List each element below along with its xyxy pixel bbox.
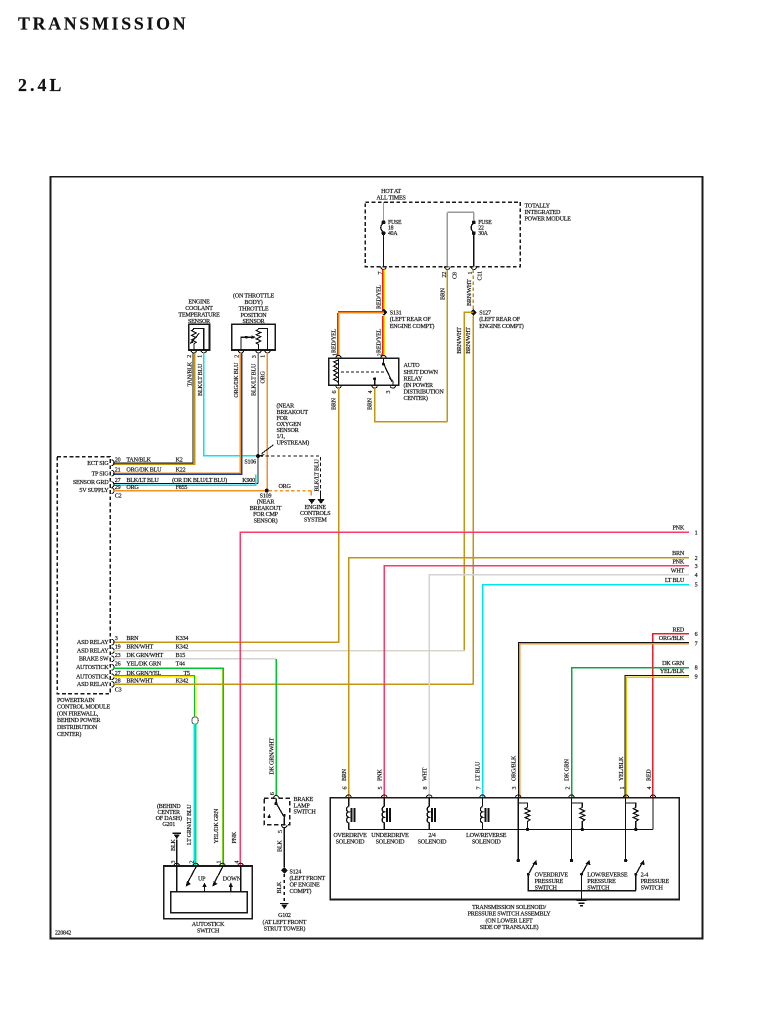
- pin 4 internal wire: [652, 798, 654, 830]
- svg-text:WHT: WHT: [671, 568, 685, 574]
- svg-text:TRANSMISSION SOLENOID/: TRANSMISSION SOLENOID/: [472, 905, 546, 911]
- svg-text:COMPT): COMPT): [290, 888, 312, 895]
- svg-text:FOR CMP: FOR CMP: [253, 512, 279, 518]
- svg-text:3: 3: [512, 787, 518, 790]
- svg-text:1: 1: [198, 355, 204, 358]
- svg-text:S124: S124: [290, 869, 302, 875]
- wire BLK/LT BLU dashed from S106 to engine controls: [260, 456, 321, 498]
- svg-text:COOLANT: COOLANT: [185, 306, 213, 312]
- solenoid return bus: [349, 828, 653, 830]
- wire RED/YEL S131 down to relay pin 2: [382, 316, 384, 356]
- svg-text:YEL/BLK: YEL/BLK: [660, 669, 685, 675]
- svg-text:6: 6: [270, 792, 276, 795]
- svg-text:G102: G102: [278, 913, 291, 919]
- svg-text:SOLENOID: SOLENOID: [472, 840, 502, 846]
- wire BRN from TIPM pin 22 down: [446, 270, 448, 422]
- relay K1 box: [329, 358, 399, 385]
- svg-text:RED/YEL: RED/YEL: [332, 328, 338, 353]
- svg-text:(NEAR: (NEAR: [277, 403, 296, 410]
- wire BRN/WHT PCM pin28 to S127: [113, 683, 474, 685]
- svg-text:4: 4: [368, 391, 374, 394]
- svg-text:PNK: PNK: [672, 559, 684, 565]
- wire 2 BRN to solenoid pin6: [349, 558, 689, 798]
- splice S131: [381, 309, 388, 316]
- svg-text:RELAY: RELAY: [404, 376, 423, 382]
- svg-text:RED/YEL: RED/YEL: [376, 328, 382, 353]
- svg-text:BRN: BRN: [342, 768, 348, 781]
- svg-text:2-4: 2-4: [641, 872, 649, 878]
- wire BLK/LT BLU TPS pin3 through S106 to PCM pin 27: [257, 353, 259, 456]
- svg-text:ASD RELAY: ASD RELAY: [77, 640, 109, 646]
- svg-text:S127: S127: [479, 311, 491, 317]
- wire RED/YEL S131 branch left to relay pin 1: [338, 311, 384, 313]
- svg-text:RED: RED: [672, 627, 684, 633]
- svg-text:BREAKOUT: BREAKOUT: [277, 410, 309, 416]
- svg-text:220842: 220842: [55, 930, 71, 936]
- svg-text:1: 1: [695, 530, 698, 536]
- wire LT GRN/LT BLU connector to autostick pin2: [193, 724, 195, 867]
- svg-text:9: 9: [695, 675, 698, 681]
- brake lamp switch contact: [275, 798, 277, 802]
- svg-text:(AT LEFT FRONT: (AT LEFT FRONT: [263, 919, 307, 926]
- svg-text:CENTER): CENTER): [404, 395, 428, 402]
- autostick pin brackets: [174, 863, 244, 866]
- svg-text:BRN: BRN: [672, 551, 685, 557]
- svg-text:ASD RELAY: ASD RELAY: [77, 682, 109, 688]
- svg-text:OF DASH): OF DASH): [156, 815, 182, 822]
- svg-text:BLK: BLK: [278, 840, 284, 852]
- svg-text:POWER MODULE: POWER MODULE: [525, 217, 572, 223]
- wire 8 DK GRN to solenoid pin2: [572, 668, 690, 798]
- 2-4 pressure switch arm: [636, 864, 642, 875]
- svg-text:5V SUPPLY: 5V SUPPLY: [79, 488, 109, 494]
- diagram frame: [51, 177, 703, 939]
- svg-text:AUTOSTICK: AUTOSTICK: [76, 675, 109, 681]
- wire YEL/DK GRN PCM pin26 to autostick pin1: [113, 668, 223, 866]
- svg-text:OF ENGINE: OF ENGINE: [290, 883, 321, 889]
- solenoid pin brackets: [346, 795, 656, 798]
- wire DK GRN/WHT PCM pin23 row: [113, 658, 276, 660]
- svg-text:SOLENOID: SOLENOID: [336, 840, 366, 846]
- svg-text:SOLENOID: SOLENOID: [418, 840, 448, 846]
- svg-text:T44: T44: [176, 661, 185, 667]
- svg-text:27: 27: [115, 478, 121, 484]
- brake lamp switch dashed box: [264, 798, 290, 825]
- svg-text:ENGINE COMPT): ENGINE COMPT): [390, 323, 435, 330]
- svg-text:BEHIND POWER: BEHIND POWER: [57, 718, 101, 724]
- svg-text:(LEFT FRONT: (LEFT FRONT: [290, 875, 326, 882]
- svg-text:ENGINE: ENGINE: [188, 299, 210, 305]
- svg-text:C8: C8: [452, 272, 458, 279]
- svg-text:RED/YEL: RED/YEL: [376, 284, 382, 309]
- svg-text:(ON LOWER LEFT: (ON LOWER LEFT: [485, 917, 533, 924]
- svg-text:26: 26: [115, 661, 121, 667]
- 2-4 pressure switch resistor: [626, 798, 639, 861]
- overdrive pressure switch arm: [528, 864, 534, 875]
- svg-text:C11: C11: [478, 271, 484, 280]
- TPS wiper: [241, 337, 253, 350]
- svg-text:LAMP: LAMP: [294, 803, 311, 809]
- svg-text:BLK: BLK: [171, 839, 177, 851]
- relay dashed link: [341, 371, 384, 373]
- wire 5 LT BLU to solenoid pin7: [483, 585, 690, 798]
- wire feed fuse 18: [383, 202, 385, 221]
- svg-text:S109: S109: [260, 494, 272, 500]
- wire BRN/WHT dashed TIPM pin1 to S127: [472, 270, 474, 309]
- svg-text:CENTER): CENTER): [57, 731, 81, 738]
- svg-text:6: 6: [332, 391, 338, 394]
- svg-text:SWITCH: SWITCH: [641, 886, 664, 892]
- TIPM dashed box: [365, 202, 520, 267]
- svg-text:ENGINE: ENGINE: [305, 505, 327, 511]
- wire 3 PNK to solenoid pin5: [384, 566, 689, 798]
- svg-text:BRN: BRN: [367, 397, 373, 410]
- svg-text:G201: G201: [162, 822, 175, 828]
- svg-text:TOTALLY: TOTALLY: [525, 204, 551, 210]
- svg-text:ALL TIMES: ALL TIMES: [376, 196, 406, 202]
- svg-text:SYSTEM: SYSTEM: [304, 518, 328, 524]
- svg-text:FOR: FOR: [277, 416, 289, 422]
- svg-text:STRUT TOWER): STRUT TOWER): [264, 925, 306, 932]
- svg-text:2.4L: 2.4L: [18, 75, 65, 95]
- ECT pin brackets: [191, 350, 207, 353]
- svg-text:BLK/LT BLU: BLK/LT BLU: [251, 363, 257, 396]
- TPS pin brackets: [238, 350, 270, 353]
- svg-text:BRAKE SW: BRAKE SW: [79, 657, 109, 663]
- svg-text:6: 6: [695, 632, 698, 638]
- svg-text:BODY): BODY): [244, 299, 262, 306]
- svg-text:POWERTRAIN: POWERTRAIN: [57, 698, 95, 704]
- svg-text:PRESSURE: PRESSURE: [587, 879, 616, 885]
- svg-text:BLK/LT BLU: BLK/LT BLU: [315, 459, 321, 492]
- wire BLK dashed S124 to G102: [283, 874, 285, 903]
- svg-text:TAN/BLK: TAN/BLK: [126, 457, 151, 463]
- svg-text:19: 19: [115, 645, 121, 651]
- wire 7 ORG/BLK to solenoid pin3: [518, 642, 689, 797]
- wire feed fuse 22: [447, 212, 474, 266]
- svg-text:21: 21: [115, 468, 121, 474]
- ECT sensor box: [189, 324, 210, 350]
- svg-text:YEL/BLK: YEL/BLK: [619, 756, 625, 781]
- low/reverse pressure switch arm: [582, 864, 588, 875]
- svg-text:2: 2: [187, 355, 193, 358]
- svg-text:OVERDRIVE: OVERDRIVE: [535, 872, 569, 878]
- splice S106: [256, 454, 260, 458]
- svg-text:S106: S106: [244, 460, 256, 466]
- svg-text:OXYGEN: OXYGEN: [277, 422, 302, 428]
- fuse F22: [471, 221, 475, 267]
- svg-text:TEMPERATURE: TEMPERATURE: [178, 313, 220, 319]
- svg-text:LOW/REVERSE: LOW/REVERSE: [587, 872, 628, 878]
- svg-text:LT GRN/LT BLU: LT GRN/LT BLU: [187, 804, 193, 845]
- svg-text:TP SIG: TP SIG: [91, 472, 109, 478]
- ground G201: [172, 832, 181, 834]
- label FUSE 22 30A: [478, 220, 492, 237]
- wire RED/YEL from pin 7 to S131: [382, 270, 384, 313]
- autostick internal wires pins 3 and 4: [176, 866, 178, 892]
- pressure switch ground: [581, 891, 583, 901]
- PCM C3 pin brackets: [111, 639, 114, 687]
- wire BRN/WHT PCM pin19 row: [113, 650, 465, 652]
- PCM dashed box: [57, 457, 110, 694]
- svg-text:(LEFT REAR OF: (LEFT REAR OF: [479, 316, 521, 323]
- splice S124: [281, 867, 288, 874]
- svg-text:SENSOR: SENSOR: [277, 428, 300, 434]
- svg-text:ORG/DK BLU: ORG/DK BLU: [234, 362, 240, 398]
- wire DK GRN/WHT down to brake lamp switch: [275, 659, 277, 796]
- svg-text:BRN: BRN: [126, 636, 139, 642]
- svg-text:ECT SIG: ECT SIG: [87, 461, 109, 467]
- svg-text:1: 1: [261, 355, 267, 358]
- svg-text:8: 8: [423, 787, 429, 790]
- svg-text:CONTROL MODULE: CONTROL MODULE: [57, 705, 111, 711]
- svg-text:5: 5: [695, 583, 698, 589]
- TPS sensor box: [232, 324, 276, 350]
- svg-text:THROTTLE: THROTTLE: [239, 307, 269, 313]
- svg-text:SHUT DOWN: SHUT DOWN: [404, 370, 439, 376]
- solenoid assembly box: [330, 798, 679, 900]
- relay switch arm: [375, 358, 393, 385]
- svg-text:DK GRN/WHT: DK GRN/WHT: [126, 653, 163, 659]
- svg-text:2: 2: [378, 353, 384, 356]
- svg-text:K2: K2: [176, 457, 183, 463]
- svg-text:5: 5: [378, 787, 384, 790]
- svg-text:(BEHIND: (BEHIND: [157, 803, 181, 810]
- svg-text:AUTO: AUTO: [404, 363, 421, 369]
- TPS potentiometer: [256, 329, 261, 350]
- brake lamp switch pin 5: [282, 825, 288, 828]
- autostick inner box: [171, 892, 247, 913]
- wire ORG dashed from S109: [269, 490, 311, 492]
- svg-text:BRAKE: BRAKE: [294, 797, 314, 803]
- svg-text:HOT AT: HOT AT: [381, 189, 401, 195]
- svg-text:SWITCH: SWITCH: [294, 810, 317, 816]
- wire 1 PNK to autostick pin4: [240, 532, 689, 866]
- svg-text:BRN/WHT: BRN/WHT: [457, 327, 463, 354]
- svg-text:LOW/REVERSE: LOW/REVERSE: [466, 833, 507, 839]
- svg-text:20: 20: [115, 457, 121, 463]
- svg-text:ORG/DK BLU: ORG/DK BLU: [126, 468, 162, 474]
- svg-text:28: 28: [115, 678, 121, 684]
- svg-text:ASD RELAY: ASD RELAY: [77, 649, 109, 655]
- svg-text:BRN: BRN: [331, 397, 337, 410]
- autostick DOWN switch: [221, 866, 223, 868]
- svg-text:2: 2: [234, 355, 240, 358]
- svg-text:TRANSMISSION: TRANSMISSION: [18, 14, 188, 34]
- svg-text:(ON FIREWALL,: (ON FIREWALL,: [57, 710, 99, 717]
- wire 6 RED to solenoid pin4: [653, 634, 689, 798]
- arrow to S106: [262, 445, 274, 454]
- svg-text:UPSTREAM): UPSTREAM): [277, 439, 310, 446]
- svg-text:3: 3: [115, 636, 118, 642]
- relay pin brackets top: [336, 355, 396, 388]
- arrow ORG to engine controls: [310, 491, 312, 496]
- svg-text:(OR DK BLU/LT BLU): (OR DK BLU/LT BLU): [172, 477, 227, 484]
- svg-text:(ON THROTTLE: (ON THROTTLE: [233, 292, 275, 299]
- svg-text:BRN/WHT: BRN/WHT: [467, 279, 473, 306]
- svg-text:7: 7: [695, 641, 698, 647]
- wire BLK G201 to autostick pin3: [176, 840, 178, 866]
- svg-text:3: 3: [252, 355, 258, 358]
- arrow engine controls left: [308, 499, 315, 504]
- svg-text:(IN POWER: (IN POWER: [404, 382, 434, 389]
- svg-text:1/1,: 1/1,: [277, 434, 286, 440]
- wire DK GRN/YEL PCM pin27 to connector: [113, 677, 196, 718]
- overdrive pressure switch resistor: [518, 798, 530, 861]
- svg-text:BRN/WHT: BRN/WHT: [126, 645, 153, 651]
- inline connector on DK GRN/YEL wire: [192, 717, 198, 724]
- wire 4 WHT to solenoid pin8: [429, 575, 689, 798]
- svg-text:K22: K22: [176, 468, 186, 474]
- wire BRN relay pin 4 to TIPM pin 22 wire: [375, 388, 448, 422]
- svg-text:4: 4: [695, 573, 698, 579]
- svg-text:1: 1: [333, 353, 339, 356]
- svg-text:2: 2: [565, 787, 571, 790]
- svg-text:SWITCH: SWITCH: [587, 886, 610, 892]
- svg-text:B15: B15: [176, 653, 186, 659]
- svg-text:C3: C3: [115, 688, 122, 694]
- svg-text:BLK/LT BLU: BLK/LT BLU: [198, 363, 204, 396]
- svg-text:23: 23: [115, 653, 121, 659]
- wire BLK/LT BLU ECT pin1 to S106: [204, 353, 256, 456]
- svg-text:K342: K342: [176, 678, 189, 684]
- svg-text:PRESSURE: PRESSURE: [641, 879, 670, 885]
- svg-text:LT BLU: LT BLU: [476, 761, 482, 781]
- svg-text:PNK: PNK: [377, 769, 383, 781]
- svg-text:BRN/WHT: BRN/WHT: [466, 327, 472, 354]
- svg-text:LT BLU: LT BLU: [665, 578, 685, 584]
- svg-text:SWITCH: SWITCH: [197, 929, 220, 935]
- fuse F18: [381, 221, 385, 267]
- wire BRN/WHT S127 down to PCM pin 28: [472, 316, 474, 684]
- svg-text:K900: K900: [242, 478, 255, 484]
- svg-text:YEL/DK GRN: YEL/DK GRN: [126, 661, 161, 667]
- overdrive solenoid coil: [347, 798, 355, 830]
- svg-text:1: 1: [620, 787, 626, 790]
- svg-text:BRN/WHT: BRN/WHT: [126, 678, 153, 684]
- svg-text:(LEFT REAR OF: (LEFT REAR OF: [390, 316, 432, 323]
- svg-text:OVERDRIVE: OVERDRIVE: [333, 833, 367, 839]
- svg-text:3: 3: [695, 564, 698, 570]
- underdrive solenoid coil: [382, 798, 390, 830]
- svg-text:6: 6: [342, 787, 348, 790]
- ground G102: [280, 903, 289, 905]
- low/reverse solenoid coil: [480, 798, 488, 830]
- svg-text:ORG/BLK: ORG/BLK: [512, 755, 518, 781]
- svg-text:ORG/BLK: ORG/BLK: [659, 636, 685, 642]
- svg-text:DISTRIBUTION: DISTRIBUTION: [404, 390, 445, 396]
- svg-text:UNDERDRIVE: UNDERDRIVE: [371, 833, 409, 839]
- svg-text:SOLENOID: SOLENOID: [376, 840, 406, 846]
- svg-text:ORG: ORG: [260, 370, 266, 383]
- svg-text:DISTRIBUTION: DISTRIBUTION: [57, 725, 98, 731]
- label FUSE 18 40A: [388, 220, 402, 237]
- svg-text:4: 4: [647, 787, 653, 790]
- svg-text:7: 7: [476, 787, 482, 790]
- wire ORG TPS pin1 to S109: [266, 353, 268, 491]
- svg-text:PNK: PNK: [672, 526, 684, 532]
- wire ORG PCM pin29 to S109: [113, 490, 265, 492]
- wire BRN relay pin 6 to PCM pin 3: [113, 388, 339, 642]
- svg-text:TAN/BLK: TAN/BLK: [187, 361, 193, 386]
- svg-text:YEL/DK GRN: YEL/DK GRN: [214, 808, 220, 843]
- wire BLK brake switch to S124: [283, 828, 285, 867]
- svg-text:40A: 40A: [388, 231, 398, 237]
- autostick switch outer box: [164, 866, 253, 919]
- svg-text:BREAKOUT: BREAKOUT: [250, 506, 282, 512]
- svg-text:PNK: PNK: [232, 831, 238, 843]
- svg-text:ORG: ORG: [279, 484, 292, 490]
- low/reverse pressure switch resistor: [572, 798, 585, 861]
- svg-text:CONTROLS: CONTROLS: [300, 511, 331, 517]
- svg-text:S131: S131: [390, 311, 402, 317]
- svg-text:SWITCH: SWITCH: [535, 886, 558, 892]
- autostick UP switch: [195, 866, 197, 868]
- svg-text:DK GRN: DK GRN: [662, 661, 685, 667]
- svg-text:SIDE OF TRANSAXLE): SIDE OF TRANSAXLE): [480, 924, 539, 931]
- PCM C2 pin brackets: [111, 460, 114, 494]
- svg-text:INTEGRATED: INTEGRATED: [525, 210, 562, 216]
- svg-text:PRESSURE: PRESSURE: [535, 879, 564, 885]
- wire BRN/WHT S127 left branch down to PCM pin 19: [464, 312, 473, 650]
- svg-text:8: 8: [695, 666, 698, 672]
- splice S127: [470, 309, 477, 316]
- svg-text:30A: 30A: [478, 231, 488, 237]
- 2/4 solenoid coil: [427, 798, 435, 830]
- relay coil: [338, 358, 340, 385]
- TIPM pin brackets: [381, 267, 477, 270]
- svg-text:SENSOR GRD: SENSOR GRD: [73, 480, 109, 486]
- svg-text:ENGINE COMPT): ENGINE COMPT): [479, 323, 524, 330]
- svg-text:C2: C2: [115, 493, 122, 499]
- svg-text:PRESSURE SWITCH ASSEMBLY: PRESSURE SWITCH ASSEMBLY: [468, 912, 552, 918]
- svg-text:UP: UP: [198, 877, 206, 883]
- svg-text:DK GRN: DK GRN: [565, 758, 571, 781]
- arrow engine controls right: [317, 499, 324, 504]
- svg-text:DK GRN/WHT: DK GRN/WHT: [269, 738, 275, 775]
- svg-text:K334: K334: [176, 636, 189, 642]
- svg-text:BLK: BLK: [277, 881, 283, 893]
- svg-text:2: 2: [695, 556, 698, 562]
- ECT thermistor: [192, 329, 197, 350]
- svg-text:BRN: BRN: [440, 287, 446, 300]
- svg-text:BLK/LT BLU: BLK/LT BLU: [126, 478, 159, 484]
- wire TAN/BLK ECT pin2 to PCM pin 20: [113, 353, 193, 463]
- wire ORG/DK BLU TPS pin2 to PCM pin 21: [113, 353, 241, 473]
- svg-text:WHT: WHT: [422, 767, 428, 781]
- svg-text:(NEAR: (NEAR: [257, 499, 276, 506]
- svg-text:3: 3: [386, 391, 392, 394]
- svg-text:AUTOSTICK: AUTOSTICK: [76, 665, 109, 671]
- svg-text:K342: K342: [176, 645, 189, 651]
- splice S109: [265, 489, 269, 493]
- svg-text:AUTOSTICK: AUTOSTICK: [192, 922, 225, 928]
- svg-text:RED: RED: [646, 769, 652, 781]
- wire 9 YEL/BLK to solenoid pin1: [625, 676, 689, 798]
- svg-text:SENSOR): SENSOR): [254, 517, 278, 524]
- svg-text:DOWN: DOWN: [223, 877, 242, 883]
- svg-text:2/4: 2/4: [428, 833, 435, 839]
- svg-text:5: 5: [278, 830, 284, 833]
